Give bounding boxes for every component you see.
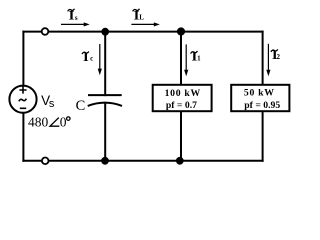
svg-text:pf = 0.95: pf = 0.95 — [244, 100, 280, 111]
svg-text:c: c — [90, 54, 93, 62]
svg-text:pf = 0.7: pf = 0.7 — [166, 100, 197, 111]
svg-text:1: 1 — [197, 54, 201, 62]
svg-text:C: C — [76, 98, 86, 114]
svg-text:2: 2 — [277, 53, 281, 61]
svg-text:480: 480 — [28, 114, 49, 129]
svg-text:s: s — [75, 14, 78, 22]
svg-text:L: L — [139, 14, 144, 22]
svg-text:0: 0 — [60, 114, 67, 129]
svg-text:100 kW: 100 kW — [165, 88, 201, 99]
svg-text:s: s — [49, 98, 55, 110]
svg-text:50 kW: 50 kW — [244, 88, 275, 99]
